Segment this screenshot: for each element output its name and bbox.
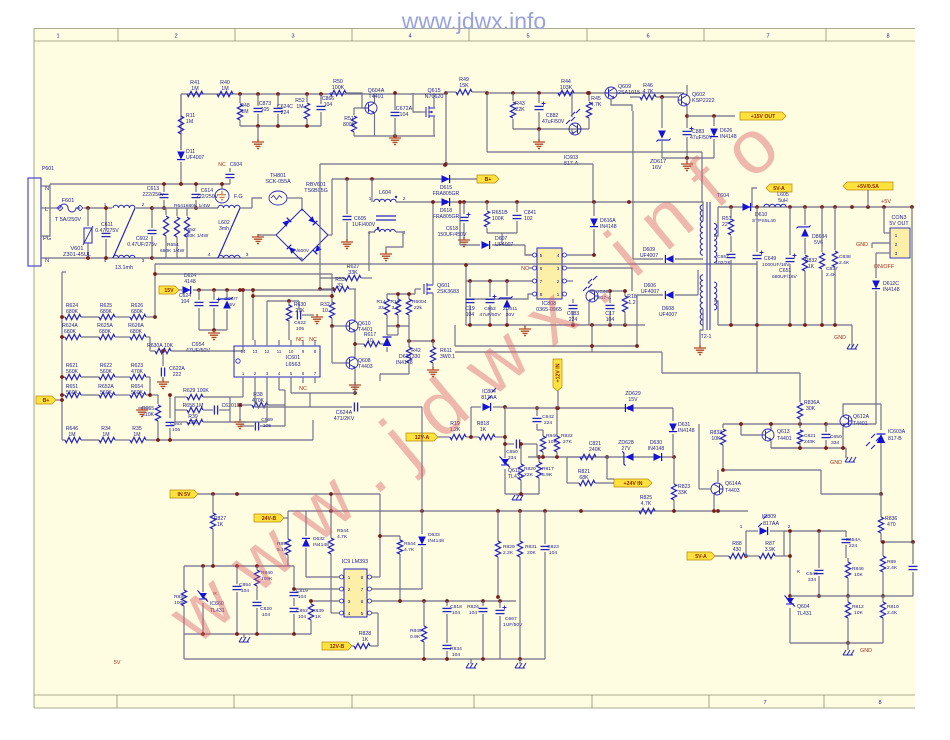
svg-text:L604: L604 (379, 190, 391, 196)
svg-text:2.4K: 2.4K (839, 260, 850, 266)
svg-text:103K: 103K (560, 85, 573, 91)
svg-text:4A/600V: 4A/600V (291, 248, 310, 253)
svg-text:1K: 1K (315, 614, 322, 620)
svg-text:C651: C651 (779, 268, 791, 274)
svg-text:C622: C622 (294, 320, 306, 326)
capacitor C604 NC (229, 179, 231, 184)
resistor R611 3W0.1 (432, 341, 434, 347)
resistor R655 210K (157, 395, 159, 404)
svg-text:104: 104 (549, 550, 557, 556)
capacitor C820 104 (253, 601, 262, 603)
resistor R846 10K (540, 436, 545, 452)
wire right vertical (445, 93, 447, 164)
resistor R626A 680K (115, 336, 130, 338)
wire top bus right (487, 92, 684, 94)
svg-text:4.7K: 4.7K (590, 102, 601, 108)
svg-text:8: 8 (361, 575, 364, 581)
svg-text:C650: C650 (506, 449, 518, 455)
wire r42 row (380, 373, 409, 375)
resistor R646 1M (62, 439, 65, 441)
svg-text:UF4007: UF4007 (186, 155, 204, 161)
signal ground cluster (845, 448, 847, 458)
svg-text:1M: 1M (191, 86, 199, 92)
resistor R617 10 (364, 341, 380, 346)
resistor R654 560K (115, 394, 130, 396)
svg-text:IN4148: IN4148 (428, 538, 444, 544)
svg-text:TL431: TL431 (797, 611, 812, 617)
resistor R829 2.2K (497, 511, 499, 541)
signal ground (851, 325, 853, 347)
wire x380 down (379, 494, 381, 577)
inductor L605 (764, 204, 786, 207)
fuse F601 (56, 204, 80, 212)
wire y373 (662, 372, 800, 374)
svg-text:1: 1 (56, 34, 59, 40)
resistor R18 1.2 (624, 291, 626, 296)
svg-text:R629 100K: R629 100K (183, 388, 209, 394)
resistor R11 1M (180, 94, 182, 116)
svg-text:C657: C657 (717, 254, 729, 260)
resistor R42 330 (408, 341, 410, 347)
svg-text:33K: 33K (678, 490, 688, 496)
earth ground (257, 126, 259, 140)
svg-text:33: 33 (378, 305, 384, 311)
svg-text:10: 10 (289, 349, 294, 354)
svg-text:0.47UF/275v: 0.47UF/275v (127, 242, 157, 248)
wire ic top pins (242, 290, 244, 340)
connector CON3 (890, 228, 910, 258)
svg-text:7: 7 (763, 700, 766, 706)
zener D8634 5V6 (804, 207, 806, 225)
net label B+ (477, 175, 499, 183)
resistor R839 1K (310, 601, 312, 604)
capacitor C852 104 (290, 607, 299, 609)
svg-text:R831: R831 (525, 544, 537, 550)
svg-text:0.47/275V: 0.47/275V (95, 228, 119, 234)
svg-text:5.9K: 5.9K (542, 472, 553, 478)
wire pin2 (294, 588, 340, 590)
wire cluster mid rail (771, 447, 846, 449)
wire 5V gnd rail (718, 324, 852, 326)
svg-text:471/2KV: 471/2KV (334, 416, 355, 422)
svg-text:2.4K: 2.4K (887, 565, 898, 571)
svg-text:C837: C837 (826, 266, 838, 272)
diode D630 IN4148 (654, 453, 662, 461)
svg-text:7: 7 (766, 34, 769, 40)
svg-text:13.1mh: 13.1mh (115, 265, 133, 271)
wire r629 left join (174, 397, 176, 410)
wire q614a base (698, 424, 700, 489)
capacitor C622A 222 (162, 351, 164, 366)
resistor R823 33K (673, 457, 675, 484)
net label 5V-A bottom (687, 552, 715, 560)
net label +24V IN (614, 479, 652, 487)
svg-text:C654A: C654A (845, 537, 861, 543)
wire right join (229, 397, 231, 410)
svg-text:+5V/0.5A: +5V/0.5A (857, 184, 879, 190)
zener ZD617 15V (226, 290, 228, 297)
svg-text:NC: NC (218, 162, 226, 168)
wire q608 col down (354, 383, 356, 393)
diode D607 UF4007 (460, 244, 480, 246)
resistor R87 3.9K (745, 555, 759, 557)
earth ground (239, 405, 241, 420)
svg-text:R834: R834 (450, 646, 462, 652)
net label B+ (36, 396, 56, 404)
resistor R39 10K (174, 410, 176, 422)
wire con3 pin2 (872, 242, 890, 244)
earth ground (138, 407, 150, 409)
resistor R624 680K (62, 316, 65, 318)
optocoupler IC608 817-A (586, 290, 598, 302)
svg-text:R829: R829 (503, 544, 515, 550)
svg-text:R820: R820 (524, 466, 536, 472)
optocoupler IC809 817AA (745, 531, 747, 556)
svg-text:L6563: L6563 (286, 362, 301, 368)
wire c669 loop (284, 405, 286, 426)
svg-text:1M: 1M (221, 86, 229, 92)
transistor Q608 T4403 (346, 357, 358, 369)
svg-text:560K: 560K (66, 369, 79, 375)
svg-text:IN4148: IN4148 (648, 446, 665, 452)
earth at bridge (258, 234, 276, 236)
wire bus y596 (790, 595, 913, 597)
svg-text:104: 104 (469, 610, 477, 616)
svg-text:0.9K: 0.9K (410, 634, 421, 640)
wire pin3 r18 link (610, 290, 625, 292)
svg-text:NC: NC (296, 337, 304, 343)
svg-text:47uF/50V: 47uF/50V (542, 119, 565, 125)
svg-text:IN4148: IN4148 (678, 428, 695, 434)
wire primary bottom (700, 309, 703, 330)
capacitor C663 105 (169, 395, 171, 418)
svg-text:3: 3 (291, 34, 294, 40)
svg-text:104: 104 (452, 652, 460, 658)
capacitor C883 47uF/50V (686, 116, 688, 128)
wire bottom rail lm393 (184, 633, 311, 635)
capacitor C602 (148, 229, 157, 231)
earth ground (389, 135, 401, 145)
net label 5V-A (766, 184, 792, 192)
wire B+ rail (332, 178, 477, 180)
signal ground (243, 634, 245, 638)
svg-text:22K: 22K (515, 107, 525, 113)
svg-text:R844: R844 (404, 541, 416, 547)
svg-text:470K: 470K (131, 369, 144, 375)
svg-text:8: 8 (886, 34, 889, 40)
svg-text:PG: PG (43, 236, 51, 242)
net label +15V OUT (740, 112, 786, 120)
capacitor C19 104 (469, 281, 471, 297)
svg-text:2: 2 (895, 242, 898, 248)
svg-text:10K: 10K (188, 420, 198, 426)
wire L (41, 207, 56, 209)
wire y470-494 rail (723, 469, 821, 471)
capacitor C683 224 (572, 299, 574, 303)
diode D631 IN4148 (672, 408, 674, 421)
svg-text:680UF/16V: 680UF/16V (772, 274, 798, 280)
svg-text:C823: C823 (547, 544, 559, 550)
wire left col x155 (154, 264, 156, 317)
earth ground (686, 158, 688, 162)
wire top rail tl431 (184, 565, 294, 567)
resistor R622 560K (81, 376, 99, 378)
wire source (432, 293, 434, 341)
capacitor C649 1000UF/16V (756, 207, 758, 252)
shunt Q604 TL431 (785, 596, 796, 607)
svg-text:22k: 22k (414, 305, 422, 311)
wire pin7 (372, 588, 423, 590)
earth ground (427, 367, 439, 377)
svg-text:13: 13 (253, 349, 258, 354)
svg-text:1: 1 (348, 575, 351, 581)
svg-text:27K: 27K (563, 439, 572, 445)
svg-text:680K: 680K (66, 309, 79, 315)
svg-text:560K: 560K (131, 390, 144, 396)
svg-text:1M: 1M (241, 109, 248, 115)
svg-text:R822: R822 (561, 433, 573, 439)
resistor R6004 22k (408, 294, 410, 299)
capacitor C650b 334 (825, 424, 827, 432)
wire feedback y264 (155, 263, 757, 265)
capacitor C866 104 (320, 94, 322, 104)
wire q614a emitter (713, 495, 715, 511)
svg-text:NC: NC (299, 386, 307, 392)
svg-text:5V OUT: 5V OUT (889, 221, 909, 227)
resistor R35 1M (115, 439, 130, 441)
resistor R88 430 (729, 553, 745, 558)
transistor Q612A T4401 (840, 415, 852, 427)
svg-text:4: 4 (208, 252, 211, 257)
svg-text:R658 1M: R658 1M (183, 403, 204, 409)
inductor L604 (371, 179, 373, 202)
diode D618 FRA805GR (442, 198, 450, 206)
svg-text:800K: 800K (343, 122, 356, 128)
svg-text:www.jdwx.info: www.jdwx.info (401, 8, 546, 34)
earth ground (458, 237, 470, 247)
svg-text:IC601: IC601 (286, 355, 300, 361)
resistor R40 1M (217, 91, 233, 96)
svg-text:222/250v: 222/250v (142, 192, 164, 198)
wire q610-q608 (354, 332, 356, 357)
svg-text:C818: C818 (450, 604, 462, 610)
wire r-bottom rail (387, 325, 409, 327)
svg-text:817AA: 817AA (763, 521, 780, 527)
choke L602 (218, 205, 240, 208)
svg-text:3.9K: 3.9K (765, 547, 776, 553)
transistor Q613 T4401 (762, 429, 774, 441)
wire q613 collector (770, 424, 772, 429)
svg-text:10K: 10K (854, 610, 863, 616)
zener ZD628 27V (622, 451, 633, 465)
resistor R836 470 (880, 494, 882, 517)
net label 15V (159, 286, 179, 294)
earth ground (380, 251, 392, 261)
resistor R52 1M (306, 94, 308, 102)
capacitor C854 104 (236, 566, 238, 584)
signal ground (516, 494, 518, 496)
svg-text:12: 12 (265, 349, 270, 354)
svg-text:5: 5 (361, 611, 364, 617)
wire pin6 rail (372, 600, 517, 602)
wire left down (319, 164, 321, 271)
diode D616A IN4148 (593, 202, 595, 216)
wire +12 bus y408 (505, 407, 673, 409)
wire ic601 bottom link (229, 410, 231, 422)
wire q613 emitter (770, 441, 772, 448)
svg-text:F.G: F.G (234, 194, 243, 200)
wire con3 pin3 (876, 252, 890, 254)
resistor R654 680K (186, 208, 188, 216)
svg-text:22K: 22K (524, 472, 533, 478)
svg-text:2.4K: 2.4K (887, 610, 898, 616)
wire feedback y274 (155, 273, 332, 275)
svg-text:2: 2 (403, 196, 406, 201)
capacitor C624C 224 (277, 94, 279, 106)
capacitor R834 104 (443, 644, 452, 646)
wire bottom rail (146, 439, 313, 441)
svg-text:T4401: T4401 (853, 421, 868, 427)
wire emitter row (355, 343, 364, 345)
wire pin5 (525, 254, 533, 256)
capacitor C613 (163, 184, 165, 192)
transistor Q609 2SA1015 (605, 87, 617, 99)
resistor R820 22K (520, 444, 522, 464)
svg-text:20K: 20K (527, 550, 536, 556)
net label +5V/0.5A (843, 182, 893, 190)
svg-text:C649: C649 (764, 256, 776, 262)
wire pin7 rail (466, 280, 533, 282)
svg-text:104: 104 (262, 612, 270, 618)
svg-text:R654: R654 (167, 242, 179, 248)
resistor R53 (319, 271, 321, 289)
capacitor C667 1UF/50V (499, 601, 501, 608)
svg-text:C642: C642 (542, 414, 554, 420)
capacitor C651 680UF/16V (789, 207, 791, 255)
svg-text:100K: 100K (492, 216, 505, 222)
wire right column (911, 207, 913, 541)
wire N rail (41, 257, 302, 259)
svg-text:334: 334 (508, 455, 516, 461)
wire mid rail (152, 207, 218, 209)
net label 24V-B (254, 514, 284, 522)
wire ic603a down (880, 443, 882, 494)
resistor C821 240K (567, 456, 580, 458)
svg-text:2.2K: 2.2K (503, 550, 514, 556)
svg-text:680K 1/4W: 680K 1/4W (160, 248, 185, 254)
capacitor C614 (195, 184, 197, 192)
capacitor C624 104 (198, 290, 200, 300)
transistor Q604A T4401 (365, 102, 377, 114)
svg-text:ZD6!7: ZD6!7 (224, 296, 238, 302)
svg-text:C650: C650 (830, 434, 842, 440)
svg-text:T4401: T4401 (368, 94, 383, 100)
capacitor C611 (105, 208, 107, 231)
resistor R630A 10K (150, 350, 155, 352)
resistor R629 100K (175, 396, 187, 398)
capacitor C605 1UF/400V (346, 179, 348, 214)
svg-text:R839: R839 (312, 608, 324, 614)
resistor R38 470K (240, 404, 252, 406)
svg-text:2: 2 (788, 524, 791, 529)
svg-text:560K: 560K (100, 369, 113, 375)
svg-text:105: 105 (261, 107, 270, 113)
wire y164 right (446, 163, 593, 165)
resistor R818 1K (466, 436, 479, 438)
resistor R32 10 (331, 302, 333, 305)
earth ground (694, 345, 706, 355)
wire choke out (136, 207, 166, 209)
svg-text:104: 104 (298, 594, 306, 600)
wire q612a base (826, 423, 840, 425)
wire ic bottom pins (242, 383, 244, 397)
resistor R652A 560K (81, 394, 99, 396)
resistor R41 1M (187, 91, 203, 96)
svg-text:3: 3 (246, 252, 249, 257)
wire fuse to choke (84, 207, 112, 209)
capacitor C622 105 (298, 301, 300, 310)
svg-text:STPS5L40: STPS5L40 (752, 218, 776, 224)
snubber R851 C657 (730, 207, 732, 218)
resistor R621 560K (62, 376, 65, 378)
svg-text:R14: R14 (376, 299, 385, 305)
wire gnd down (591, 325, 593, 352)
wire y152 long (487, 151, 702, 153)
svg-text:R13: R13 (390, 299, 399, 305)
wire pin1 (306, 576, 340, 578)
wire gnd rail (662, 157, 714, 159)
svg-text:8: 8 (878, 700, 881, 706)
svg-text:680K: 680K (64, 329, 77, 335)
svg-text:T2-1: T2-1 (700, 334, 711, 340)
wire RC join (487, 232, 517, 234)
svg-text:IN 5V: IN 5V (178, 492, 192, 498)
wire out +15V (687, 115, 735, 117)
wire main bus y202 (396, 201, 701, 203)
svg-text:470: 470 (887, 522, 896, 528)
svg-text:3mh: 3mh (219, 226, 229, 232)
wire pin8 (466, 294, 533, 299)
svg-text:33K: 33K (348, 270, 358, 276)
transformer T604 core (706, 202, 708, 330)
wire pin3 (567, 268, 633, 291)
wire x422 riser (421, 407, 423, 511)
wire pin2 (567, 280, 574, 282)
resistor R844 4.7K (399, 536, 401, 540)
wire q611 gnd row (505, 493, 539, 495)
svg-text:3: 3 (142, 258, 145, 263)
svg-text:560K: 560K (100, 390, 113, 396)
signal ground b2 (519, 659, 521, 664)
resistor R34 1M (81, 439, 99, 441)
svg-text:1M: 1M (186, 119, 193, 125)
svg-text:IN4148: IN4148 (883, 287, 900, 293)
svg-text:817-B: 817-B (888, 436, 902, 442)
wire long y352 (455, 351, 662, 353)
svg-text:N70620: N70620 (425, 94, 444, 100)
IC U808 box (537, 248, 562, 299)
svg-text:NC: NC (521, 266, 529, 272)
svg-text:222: 222 (173, 372, 182, 378)
resistor R623 470K (115, 376, 130, 378)
svg-text:R846: R846 (546, 433, 558, 439)
svg-text:10: 10 (367, 338, 373, 344)
diode D633 IN4148 (421, 511, 423, 534)
diode D610 STPS5L40 (743, 203, 751, 211)
earth ground (341, 239, 353, 249)
wire gnd rail ic808 (466, 324, 645, 326)
svg-text:IC809: IC809 (762, 514, 776, 520)
